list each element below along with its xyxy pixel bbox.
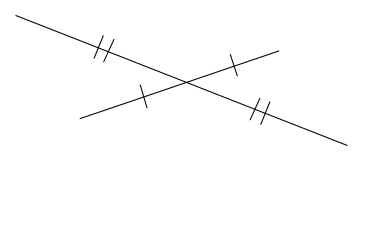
line segment 1 (double-tick segment, upper-left to lower-right) — [16, 15, 348, 145]
tick mark B (single tick, lower-left half of segment 2) — [140, 85, 147, 109]
tick mark T2 (second of double ticks, upper-left half of segment 1) — [104, 39, 115, 62]
tick mark T3 (first of double ticks, lower-right half of segment 1) — [250, 98, 260, 120]
line segment 2 (single-tick segment, lower-left to upper-right) — [80, 51, 279, 119]
tick mark T1 (first of double ticks, upper-left half of segment 1) — [94, 35, 103, 58]
tick mark T4 (second of double ticks, lower-right half of segment 1) — [261, 102, 270, 125]
tick mark A (single tick, upper-right half of segment 2) — [230, 54, 237, 76]
